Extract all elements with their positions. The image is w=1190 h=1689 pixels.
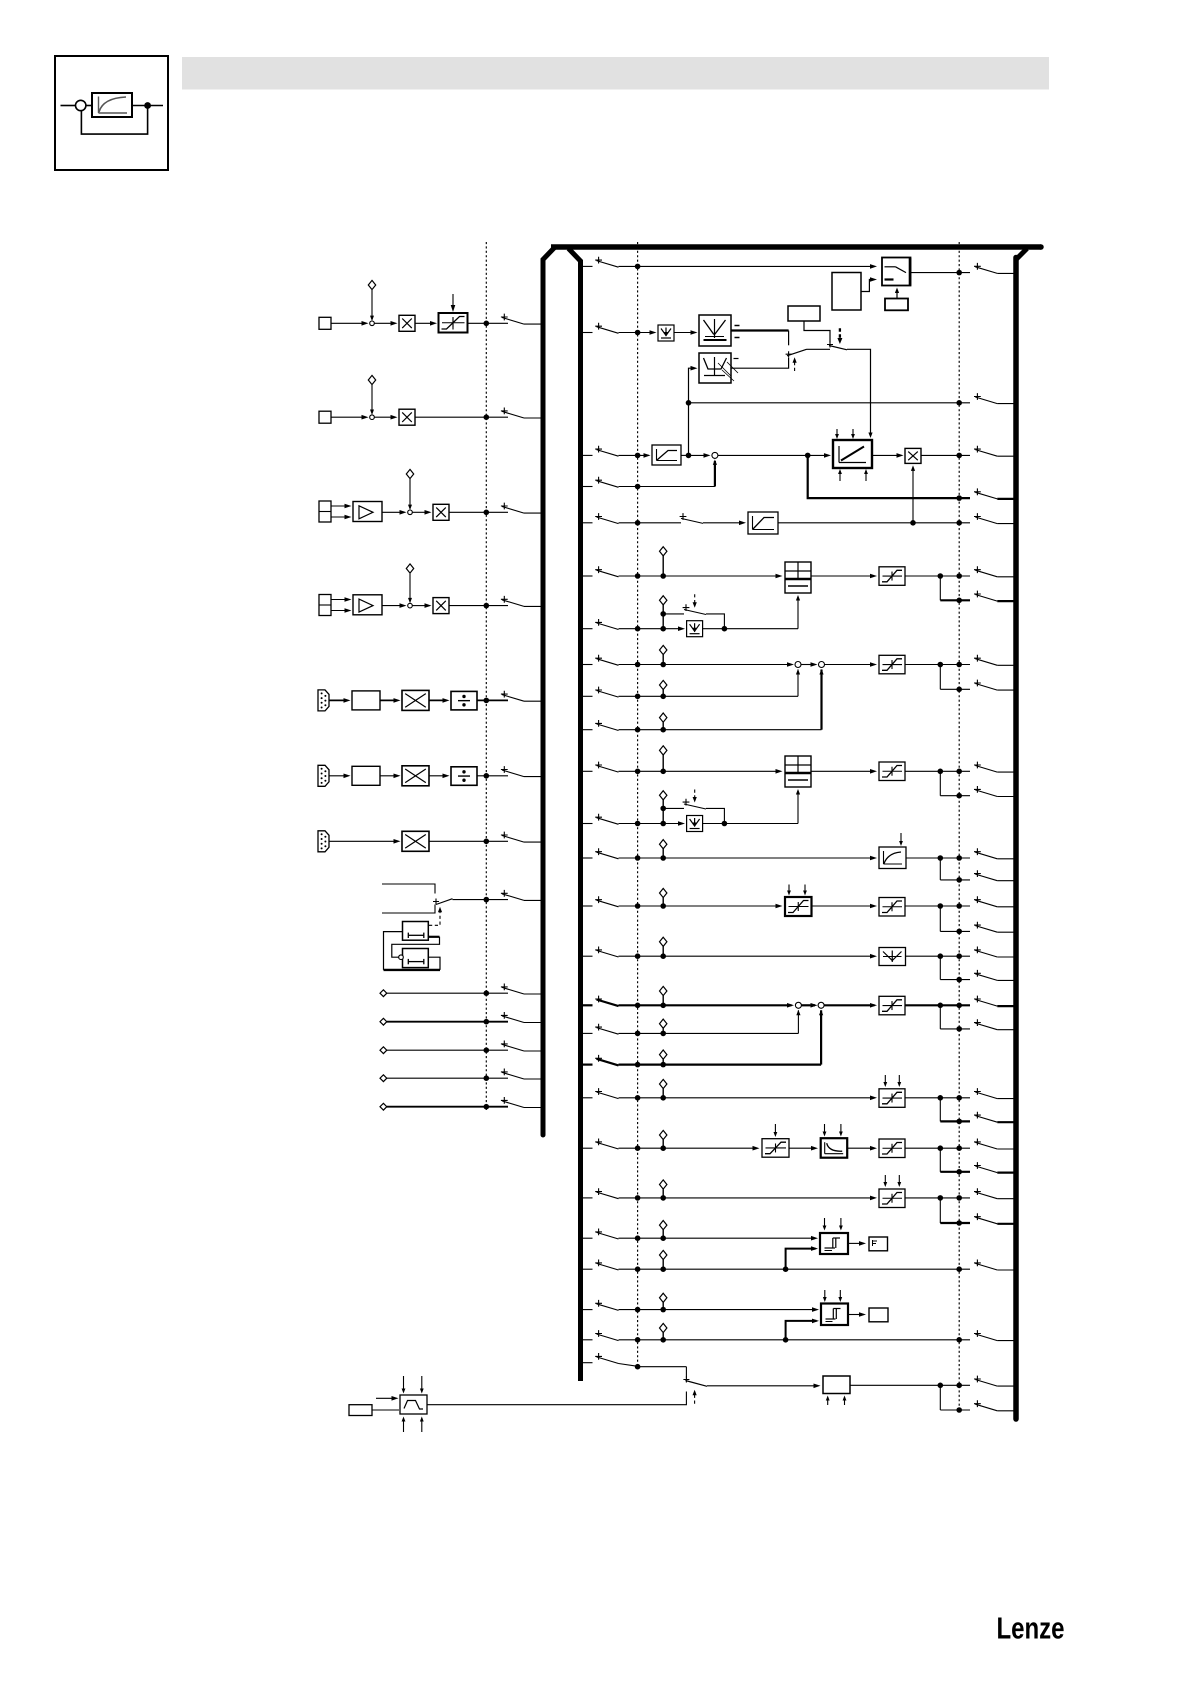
dot on boundary 3 xyxy=(956,453,962,459)
tap branch wire xyxy=(939,906,941,931)
wire L1 to bus xyxy=(468,322,509,324)
limiter block A xyxy=(879,567,905,586)
wire input to filter xyxy=(372,1409,399,1411)
dot on boundary 3 xyxy=(956,1407,962,1413)
multiplier after ramp xyxy=(905,448,921,463)
junction dot xyxy=(484,1075,490,1081)
switch A control dashed arrow xyxy=(794,360,796,372)
wire divider to bus xyxy=(477,699,508,701)
junction dot on boundary 2 xyxy=(635,769,641,775)
motorpot node circle xyxy=(399,955,404,960)
switch to bus xyxy=(501,766,508,773)
row P elbow to changeover xyxy=(685,1367,687,1378)
fixed setpoint wire row xyxy=(380,990,387,997)
T2 parameter arrows xyxy=(824,1290,826,1300)
switch to right bus xyxy=(974,870,981,877)
svg-text:Lenze: Lenze xyxy=(997,1612,1065,1646)
wire input1 to node xyxy=(331,322,365,324)
switch filter row to bus xyxy=(974,513,981,520)
wire abs to MIN block xyxy=(674,332,694,334)
junction dot on boundary 2 xyxy=(635,573,641,579)
changeover switch A xyxy=(786,351,792,357)
limiter block E xyxy=(879,898,905,917)
junction dot on boundary 2 xyxy=(635,903,641,909)
wire sum to ramp generator xyxy=(718,454,828,456)
absolute value block C2 xyxy=(687,816,703,832)
limiter block B xyxy=(879,655,905,674)
block P parameter arrows xyxy=(827,1398,829,1406)
parameter diamond xyxy=(660,1323,667,1332)
junction dot on boundary 2 xyxy=(635,520,641,526)
wire circles to limiter G xyxy=(824,1004,874,1006)
row K output xyxy=(905,1197,940,1199)
keypad output wire xyxy=(453,899,509,901)
dot on boundary 3 xyxy=(956,1003,962,1009)
parameter diamond xyxy=(660,937,667,946)
wire switch A to switch B xyxy=(807,348,831,350)
dot on boundary 3 xyxy=(956,687,962,693)
wire from inner bus xyxy=(580,664,593,666)
ramp parameter arrows bottom xyxy=(839,471,841,481)
header gray title bar xyxy=(182,57,1049,90)
output junction dot xyxy=(938,1195,944,1201)
switch monitor wire to bus xyxy=(974,393,981,400)
junction dot on boundary 2 xyxy=(635,1235,641,1241)
trigger block T1 xyxy=(820,1233,848,1254)
junction dot on boundary 2 xyxy=(635,855,641,861)
minimum block F xyxy=(879,948,906,966)
switch to right bus xyxy=(974,655,981,662)
wire multiplier to bus xyxy=(449,605,508,607)
wire from inner bus xyxy=(580,1004,593,1006)
bypass control dashed arrow xyxy=(694,790,696,801)
branch row M to trigger T1 xyxy=(783,1266,789,1272)
changeover switch P xyxy=(685,1381,707,1387)
bypass branch row A2 xyxy=(663,613,684,615)
wire from inner bus xyxy=(580,454,593,456)
parameter diamond xyxy=(660,840,667,849)
parameter diamond xyxy=(406,564,413,573)
motorpot wire up to down xyxy=(428,936,439,938)
multiplier xyxy=(402,831,429,851)
MIN upper output wire xyxy=(731,329,789,331)
bypass branch row C2 xyxy=(663,807,684,809)
wire from inner bus xyxy=(580,575,593,577)
row F output xyxy=(906,955,941,957)
MIN lower output wire xyxy=(731,358,789,369)
sum node xyxy=(408,603,413,608)
switch to right bus xyxy=(974,786,981,793)
switch B control dashed arrow xyxy=(839,328,841,341)
row J output xyxy=(905,1147,940,1149)
parameter diamond xyxy=(660,1079,667,1088)
absolute value block A2 xyxy=(687,621,703,637)
junction dot on boundary 2 xyxy=(635,694,641,700)
dot on boundary 3 xyxy=(956,520,962,526)
fixed setpoint wire row xyxy=(380,1075,387,1082)
limiter block K xyxy=(879,1189,905,1208)
junction dot on boundary 2 xyxy=(635,953,641,959)
multiplier xyxy=(402,690,429,710)
switch row M to bus xyxy=(974,1260,981,1267)
wire from inner bus xyxy=(580,486,593,488)
dot on boundary 3 xyxy=(956,270,962,276)
tap branch wire xyxy=(939,576,941,600)
J1 parameter arrow xyxy=(774,1124,776,1135)
logo input wire xyxy=(61,105,76,107)
sum node input2 xyxy=(370,415,375,420)
tap branch wire xyxy=(939,1005,941,1029)
parameter diamond xyxy=(660,680,667,689)
wire ramp to multiplier xyxy=(872,454,901,456)
motorpot enclosure xyxy=(384,932,403,970)
wire from inner bus xyxy=(580,955,593,957)
wire from inner bus xyxy=(580,857,593,859)
curve block D xyxy=(879,847,906,869)
junction dot on boundary 2 xyxy=(635,1095,641,1101)
wire from inner bus xyxy=(580,823,593,825)
sum circle B1 xyxy=(795,662,801,668)
main ramp generator block xyxy=(833,440,872,468)
switch to right bus xyxy=(974,1019,981,1026)
junction dot ramp input xyxy=(805,453,811,459)
filter parameter arrows bottom xyxy=(403,1419,405,1433)
function block xyxy=(352,766,380,785)
junction dot on boundary 2 xyxy=(635,821,641,827)
status block under selector xyxy=(885,299,908,311)
dot on boundary 3 xyxy=(956,495,962,501)
curve D parameter arrow xyxy=(900,833,902,844)
wire connector to multiplier xyxy=(329,840,397,842)
parameter diamond xyxy=(660,746,667,755)
parameter diamond xyxy=(660,1050,667,1059)
wire filter to bus xyxy=(778,522,970,524)
ramp parameter arrows top xyxy=(836,429,838,437)
MIN block upper xyxy=(699,315,731,346)
output junction dot xyxy=(938,1145,944,1151)
wire table C to limiter xyxy=(811,770,875,772)
wires terminals to amplifier xyxy=(331,599,348,601)
amplifier block xyxy=(353,595,382,615)
row D output xyxy=(906,857,940,859)
bus top bar xyxy=(551,244,1041,250)
row A output xyxy=(905,575,940,577)
scaling block J1 xyxy=(762,1139,789,1158)
filter parameter arrows top xyxy=(403,1376,405,1392)
characteristic table block A xyxy=(785,562,811,593)
dot on boundary 3 xyxy=(956,769,962,775)
wire from inner bus xyxy=(580,1309,593,1311)
wire from inner bus xyxy=(580,770,593,772)
parameter diamond xyxy=(660,645,667,654)
wire J1 to J2 xyxy=(789,1147,816,1149)
limiter block J xyxy=(879,1139,905,1158)
wire table A to limiter xyxy=(811,575,875,577)
wire from inner bus xyxy=(580,1197,593,1199)
multiplier X2 xyxy=(399,409,415,425)
wire from inner bus xyxy=(580,1097,593,1099)
tap branch wire xyxy=(939,1385,941,1410)
motorpot down key block xyxy=(403,949,429,968)
wire from inner bus xyxy=(580,1032,593,1034)
divider block xyxy=(451,691,477,710)
wire from inner bus xyxy=(580,695,593,697)
output junction dot xyxy=(938,1003,944,1009)
switch to right bus xyxy=(974,970,981,977)
multiplier X1 xyxy=(399,315,415,331)
parameter diamond xyxy=(660,1180,667,1189)
switch to right bus xyxy=(974,1112,981,1119)
wire source block to switch B xyxy=(804,321,830,343)
J2 parameter arrows xyxy=(824,1124,826,1135)
switch to right bus xyxy=(974,1213,981,1220)
logo output wire xyxy=(132,105,163,107)
parameter diamond xyxy=(660,1221,667,1230)
switch to right bus xyxy=(974,848,981,855)
dot on boundary 3 xyxy=(956,400,962,406)
T1 parameter arrows xyxy=(824,1218,826,1229)
wire from inner bus xyxy=(580,522,593,524)
wire from inner bus xyxy=(580,1339,593,1341)
right bus wall xyxy=(1013,258,1019,1420)
junction dot on boundary 2 xyxy=(635,484,641,490)
sum circle B2 xyxy=(819,662,825,668)
parameter diamond xyxy=(660,1019,667,1028)
scaling block E xyxy=(785,897,812,916)
parameter diamond xyxy=(660,1293,667,1302)
switch row O to bus xyxy=(974,1330,981,1337)
junction dot xyxy=(484,1104,490,1110)
row C output xyxy=(905,770,940,772)
logo wire circle to block xyxy=(86,105,92,107)
analog input 2 terminal xyxy=(319,411,331,423)
dot on boundary 3 xyxy=(956,793,962,799)
junction dot on boundary 2 xyxy=(635,1337,641,1343)
junction dot xyxy=(484,603,490,609)
wire block to multiplier xyxy=(380,699,397,701)
wire from inner bus xyxy=(580,628,593,630)
parameter diamond xyxy=(660,888,667,897)
divider block xyxy=(451,767,477,786)
switch to bus xyxy=(501,832,508,839)
limiter K parameter arrows xyxy=(884,1175,886,1185)
row P output xyxy=(850,1384,940,1386)
decay block J2 xyxy=(821,1138,848,1158)
tap branch wire xyxy=(939,956,941,979)
wire block to multiplier xyxy=(380,775,397,777)
junction dot xyxy=(484,990,490,996)
wire from inner bus xyxy=(580,1237,593,1239)
dot on boundary 3 xyxy=(956,1026,962,1032)
characteristic table block C xyxy=(785,756,811,787)
setpoint filter block xyxy=(748,512,778,534)
parameter diamond xyxy=(660,596,667,605)
wires terminals to amplifier xyxy=(331,505,348,507)
row E output xyxy=(905,905,940,907)
wire node2 to multiplier xyxy=(374,416,393,418)
multiplier xyxy=(433,504,449,520)
switch to right bus xyxy=(974,1400,981,1407)
dot on boundary 3 xyxy=(956,953,962,959)
encoder input terminals xyxy=(319,595,331,616)
junction dot on boundary 2 xyxy=(635,727,641,733)
wire connector to block xyxy=(329,699,347,701)
status flag block T1 xyxy=(869,1237,888,1251)
keypad changeover switch xyxy=(433,899,439,905)
sum circle G2 xyxy=(818,1002,824,1008)
junction dot on boundary 2 xyxy=(635,1062,641,1068)
left bus outer wall xyxy=(543,247,555,1135)
switch to right bus xyxy=(974,566,981,573)
tap branch wire xyxy=(939,1198,941,1223)
junction dot on boundary 2 xyxy=(635,1145,641,1151)
fixed setpoint wire row xyxy=(380,1047,387,1054)
dot on boundary 3 xyxy=(956,855,962,861)
dot on boundary 3 xyxy=(956,1169,962,1175)
monitor wire to bus xyxy=(689,402,971,404)
output junction dot xyxy=(938,769,944,775)
selector output wire xyxy=(911,272,971,274)
parameter diamond xyxy=(660,547,667,556)
multiplier scale input arrow xyxy=(912,467,914,522)
dot on boundary 3 xyxy=(956,598,962,604)
parameter diamond xyxy=(660,986,667,995)
limiter block I xyxy=(879,1089,905,1108)
junction dot xyxy=(484,510,490,516)
wire from inner bus xyxy=(580,729,593,731)
switch to bus xyxy=(501,691,508,698)
analog input 1 terminal xyxy=(319,317,331,329)
switch to bus xyxy=(501,1069,508,1076)
switch row2 to bus xyxy=(501,408,508,415)
limiter L1 parameter arrow xyxy=(452,294,454,310)
wire connector to block xyxy=(329,775,347,777)
limiter I parameter arrows xyxy=(884,1075,886,1085)
junction dot on boundary 2 xyxy=(635,626,641,632)
setpoint source block xyxy=(788,306,820,321)
amplifier block xyxy=(353,502,382,522)
wire J2 to limiter xyxy=(847,1147,874,1149)
junction dot xyxy=(484,698,490,704)
junction dot on boundary 2 xyxy=(635,264,641,270)
parameter diamond xyxy=(406,469,413,478)
switch to right bus xyxy=(974,896,981,903)
digital connector input xyxy=(318,690,329,711)
filter input arrow xyxy=(376,1397,396,1399)
dotted boundary line 3 x=959.2 xyxy=(958,242,960,1412)
wire into absolute block A2 xyxy=(663,628,682,630)
switch to right bus xyxy=(974,680,981,687)
arrow status to selector xyxy=(896,290,898,299)
wire amplifier to node xyxy=(382,605,403,607)
wire from inner bus xyxy=(580,1147,593,1149)
absolute value small block xyxy=(658,325,674,341)
scaling E parameter arrows xyxy=(788,885,790,894)
switch to right bus xyxy=(974,922,981,929)
wire switch B to ramp input xyxy=(847,349,871,435)
branch row O to trigger T2 xyxy=(783,1337,789,1343)
switch to right bus xyxy=(974,1139,981,1146)
wire X2 to bus xyxy=(415,416,508,418)
tap branch wire xyxy=(939,1098,941,1122)
switch to bus xyxy=(501,1097,508,1104)
output junction dot xyxy=(938,953,944,959)
status block T2 xyxy=(869,1308,888,1322)
dot on boundary 3 xyxy=(956,929,962,935)
junction dot on boundary 2 xyxy=(635,453,641,459)
wire from inner bus xyxy=(580,265,593,267)
junction dot row1 xyxy=(484,321,490,327)
dot on boundary 3 xyxy=(956,1383,962,1389)
row B output xyxy=(905,664,940,666)
wire multiplier to divider xyxy=(429,699,446,701)
motorpot control dashed arrow xyxy=(429,910,440,926)
junction dot keypad row xyxy=(484,897,490,903)
limiter block L1 xyxy=(439,313,468,333)
encoder input terminals xyxy=(319,501,331,522)
dot on boundary 3 xyxy=(956,877,962,883)
dot on boundary 3 xyxy=(956,977,962,983)
wire switch P to block xyxy=(707,1385,818,1387)
switch to right bus xyxy=(974,1188,981,1195)
parameter diamond xyxy=(660,1130,667,1139)
selector switch block xyxy=(882,258,911,286)
switch to right bus xyxy=(974,947,981,954)
dotted boundary line 2 x=637.6 xyxy=(637,242,639,1368)
dot on boundary 3 xyxy=(956,1095,962,1101)
function block xyxy=(352,691,380,710)
switch ramp output to bus xyxy=(974,446,981,453)
output junction dot xyxy=(938,855,944,861)
switch to right bus xyxy=(974,591,981,598)
output junction dot xyxy=(938,1383,944,1389)
wire T1 to status flag xyxy=(848,1242,864,1244)
left bus inner wall xyxy=(569,249,581,1382)
switch keypad row to bus xyxy=(501,890,508,897)
wire into absolute block C2 xyxy=(663,823,682,825)
sum node xyxy=(408,510,413,515)
wire multiplier to divider xyxy=(429,775,446,777)
control source block xyxy=(832,273,861,311)
output junction dot xyxy=(938,1095,944,1101)
switch P control dashed arrow xyxy=(694,1392,696,1404)
wire circles to limiter B xyxy=(825,664,875,666)
tap branch wire xyxy=(939,771,941,795)
limiter block C xyxy=(879,762,905,781)
switch row1 to bus xyxy=(501,314,508,321)
logo feedback wire xyxy=(81,106,147,135)
wire from inner bus xyxy=(580,1268,593,1270)
trigger block T2 xyxy=(821,1304,848,1326)
output junction dot xyxy=(938,573,944,579)
wire X1 to limiter xyxy=(415,322,432,324)
wire from inner bus xyxy=(580,905,593,907)
motorpot up key block xyxy=(403,922,429,941)
junction dot xyxy=(484,1019,490,1025)
wire amplifier to node xyxy=(382,511,403,513)
junction dot on boundary 2 xyxy=(635,1364,641,1370)
dot on boundary 3 xyxy=(956,1145,962,1151)
switch to right bus xyxy=(974,1376,981,1383)
sum node input1 xyxy=(370,321,375,326)
wire C2 to table C xyxy=(703,823,725,825)
wire from inner bus xyxy=(580,332,593,334)
sum circle ramp input xyxy=(712,452,718,458)
junction dot on boundary 2 xyxy=(635,1003,641,1009)
dotted boundary line 1 x=486 xyxy=(485,242,487,1110)
ramp bypass thick wire xyxy=(808,455,970,498)
dot on boundary 3 xyxy=(956,1195,962,1201)
